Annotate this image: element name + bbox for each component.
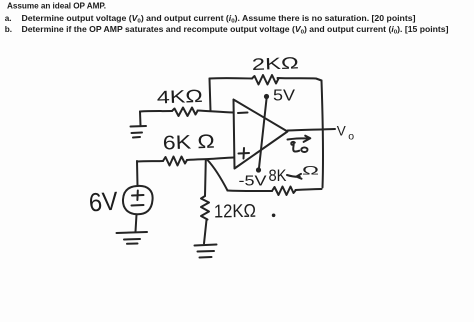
source 6V minus sign <box>132 204 144 207</box>
label io <box>291 142 299 152</box>
resistor 4k zigzag <box>172 108 198 117</box>
svg-text:6V: 6V <box>88 185 120 217</box>
wire 12k bottom lead <box>204 220 207 244</box>
svg-text:2KΩ: 2KΩ <box>252 54 300 74</box>
svg-text:V: V <box>337 123 346 138</box>
label io subscript o <box>301 147 307 152</box>
ground left symbol <box>131 126 147 138</box>
wire 12k top lead <box>204 160 207 197</box>
wire 8k left diagonal <box>208 160 228 191</box>
wire feedback top left segment <box>210 77 253 79</box>
op-amp plus sign <box>239 148 250 159</box>
resistor 8k zigzag <box>272 187 296 196</box>
label period after 12K ohm <box>272 214 276 218</box>
wire feedback left vertical <box>210 79 211 112</box>
wire noninverting left segment <box>137 160 163 163</box>
svg-text:Determine if the OP AMP satura: Determine if the OP AMP saturates and re… <box>22 25 449 36</box>
wire noninverting right segment <box>187 158 234 161</box>
svg-text:4KΩ: 4KΩ <box>156 86 203 108</box>
wire right vertical <box>322 81 323 188</box>
supply pin 5V dot <box>264 94 269 99</box>
op-amp minus sign <box>238 112 248 115</box>
ground 6V symbol <box>117 232 148 244</box>
wire 6V bottom lead <box>136 215 137 232</box>
ground 12k symbol <box>195 245 217 258</box>
wire 6V top lead <box>136 161 139 186</box>
svg-text:12KΩ: 12KΩ <box>214 200 257 222</box>
wire 8k horizontal right <box>296 189 322 190</box>
wire output <box>288 129 336 131</box>
source 6V plus sign <box>132 191 144 201</box>
source V1 6V circle <box>123 186 153 214</box>
svg-text:Assume an ideal OP AMP.: Assume an ideal OP AMP. <box>7 1 106 10</box>
svg-text:Ω: Ω <box>302 164 319 178</box>
op-amp U1 triangle <box>234 100 288 169</box>
ground left stub <box>139 112 142 126</box>
svg-text:6K Ω: 6K Ω <box>162 131 215 155</box>
arrow to omega 8k <box>287 174 302 179</box>
wire inverting input left segment <box>140 110 172 113</box>
supply pin -5V dot <box>256 167 261 172</box>
svg-text:8K: 8K <box>269 167 287 185</box>
svg-text:5V: 5V <box>273 88 295 105</box>
svg-text:Determine output voltage (V0): Determine output voltage (V0) and output… <box>22 14 416 25</box>
arrow io <box>288 136 311 142</box>
wire inverting input right segment <box>198 111 234 113</box>
resistor 6k zigzag <box>163 157 187 166</box>
svg-text:b.: b. <box>5 25 12 34</box>
svg-text:o: o <box>348 131 354 143</box>
wire 8k horizontal left <box>228 190 273 193</box>
svg-text:-5V: -5V <box>239 173 267 190</box>
supply wire through op-amp <box>259 99 267 168</box>
wire feedback top right segment <box>278 78 322 81</box>
resistor R feedback 2k zigzag <box>252 75 279 85</box>
svg-text:a.: a. <box>5 14 12 23</box>
resistor 12k zigzag <box>201 196 209 220</box>
